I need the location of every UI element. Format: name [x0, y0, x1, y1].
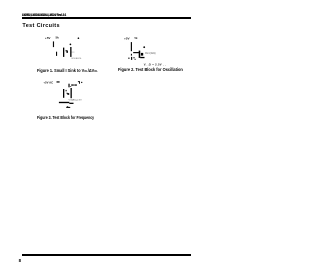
page number 8 — [19, 258, 21, 263]
circuit 3: ground lower tick — [66, 106, 70, 108]
circuit 3: op-amp U2 output wire bar — [71, 88, 72, 98]
circuit 3: label superscript mark — [78, 81, 80, 84]
circuit 3: capacitor C1 plate dash 2 — [74, 84, 77, 85]
circuit 2: oscilloscope base bar — [140, 57, 144, 58]
circuit 3: node junction dot D — [81, 82, 82, 83]
circuit 1: wire from +5V node down — [53, 41, 54, 47]
svg-text:V. .O = 2.5V . .: V. .O = 2.5V . . — [144, 62, 166, 66]
circuit 2: node junction dot C — [143, 46, 145, 48]
svg-text:5k: 5k — [135, 36, 138, 40]
caption figure 2 — [118, 67, 183, 72]
circuit 3: op-amp U2 triangle body — [67, 93, 70, 95]
svg-text:RL=(4kΩ): RL=(4kΩ) — [145, 52, 156, 55]
circuit 3: battery minus terminal dash — [57, 81, 60, 82]
header part numbers — [22, 12, 66, 17]
circuit 3: capacitor C1 plate dash 1 — [71, 84, 74, 85]
circuit 3: ground bar 2 — [69, 103, 73, 104]
svg-text:VOL/ΔVOL: VOL/ΔVOL — [71, 57, 82, 60]
circuit 2: wire stub below junction — [131, 54, 132, 56]
caption figure 1 — [37, 68, 98, 73]
svg-text:+5V: +5V — [124, 36, 131, 40]
circuit 3: op-amp U2 plus mark — [66, 90, 67, 91]
circuit 3: wire tick — [70, 85, 71, 88]
circuit 2: oscilloscope screen square — [141, 53, 143, 56]
circuit 2: wire to scope horizontal — [133, 52, 139, 53]
svg-text:5k: 5k — [56, 36, 60, 40]
circuit 1: inverting input lead — [56, 52, 57, 56]
circuit 1: node junction dot A — [70, 44, 72, 46]
circuit 1: op-amp U1 output wire bar — [70, 47, 71, 57]
svg-text:+5V: +5V — [45, 36, 52, 40]
caption figure 3 — [37, 115, 94, 120]
svg-text:+5V AC: +5V AC — [43, 81, 53, 85]
circuit 1: output stub wire — [72, 51, 75, 54]
circuit 2: wire from +5V node down — [131, 42, 132, 51]
svg-text:VO(AV)=2.5V: VO(AV)=2.5V — [69, 98, 83, 101]
circuit 1: op-amp U1 input side bar — [63, 48, 64, 57]
circuit 2: oscilloscope probe bar — [139, 51, 141, 58]
circuit 3: wire input vertical — [68, 84, 69, 88]
header rule — [22, 17, 191, 19]
section title Test Circuits — [22, 23, 59, 29]
circuit 1: op-amp U1 triangle body — [66, 50, 68, 53]
circuit 3: op-amp U2 input side bar — [63, 89, 64, 98]
footer rule — [22, 254, 191, 255]
circuit 1: node junction dot B — [78, 37, 80, 39]
circuit 3: ground bar 1 — [59, 102, 69, 103]
circuit 2: ground symbol — [128, 57, 136, 60]
